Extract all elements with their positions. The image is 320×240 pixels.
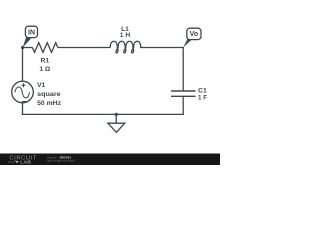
voltage source V1 bbox=[12, 81, 62, 107]
watermark logo LAB bbox=[8, 160, 31, 165]
wire top left: node to R1 bbox=[23, 47, 33, 49]
node flag IN bbox=[23, 26, 38, 47]
node IN junction dot bbox=[21, 46, 24, 49]
svg-text:C1: C1 bbox=[198, 88, 207, 95]
bottom rail wire bbox=[23, 113, 184, 115]
svg-text:LAB: LAB bbox=[20, 160, 31, 165]
resistor R1 bbox=[32, 43, 57, 73]
watermark logo CIRCUIT bbox=[9, 156, 37, 162]
ground bbox=[108, 114, 125, 132]
svg-text:IN: IN bbox=[28, 29, 35, 36]
svg-text:V1: V1 bbox=[37, 82, 45, 89]
svg-text:http://circuitlab.com/c2qkck5: http://circuitlab.com/c2qkck5 bbox=[47, 159, 75, 163]
wire L1 to right corner bbox=[141, 47, 184, 49]
svg-text:Vo: Vo bbox=[190, 31, 198, 38]
watermark project text bbox=[47, 156, 75, 163]
watermark bar bbox=[0, 154, 220, 166]
svg-text:R1: R1 bbox=[41, 58, 50, 65]
ground junction dot bbox=[115, 113, 118, 116]
svg-text:50 mHz: 50 mHz bbox=[37, 100, 62, 107]
node flag Vo bbox=[183, 28, 201, 47]
svg-text:1 Ω: 1 Ω bbox=[39, 66, 51, 73]
capacitor C1 bbox=[171, 88, 207, 102]
wire right vertical to C1 bbox=[182, 48, 184, 91]
wire C1 to bottom rail bbox=[182, 97, 184, 115]
svg-text:1 F: 1 F bbox=[198, 95, 207, 102]
wire left node down to V1 bbox=[22, 48, 24, 81]
inductor L1 bbox=[110, 26, 140, 53]
wire V1 to bottom rail bbox=[22, 103, 24, 114]
svg-text:1 H: 1 H bbox=[120, 32, 131, 39]
wire R1 to L1 bbox=[58, 47, 111, 49]
svg-text:square: square bbox=[37, 91, 61, 98]
